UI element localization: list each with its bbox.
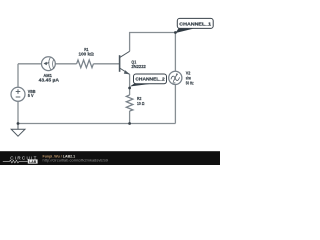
label VBB value 5 V <box>28 93 34 98</box>
wire: R1 to Q1 base <box>93 63 119 65</box>
label Q1 value 2N2222 <box>131 64 146 69</box>
svg-text:50 Hz: 50 Hz <box>186 80 194 85</box>
node: junction dot R2/bottom rail <box>128 122 131 125</box>
resistor R1 <box>77 60 94 68</box>
label R2 value 10 Ohm <box>137 101 145 106</box>
svg-text:http://circuitlab.com/c/fk2mka: http://circuitlab.com/c/fk2mka8svES9 <box>43 159 109 163</box>
wire: R2 bottom to bottom rail <box>129 111 131 124</box>
label AM1 value 43.45 uA <box>39 78 59 83</box>
wire: emitter down to R2 <box>129 74 131 95</box>
node: junction dot ground/bottom rail <box>17 122 20 125</box>
svg-text:LAB: LAB <box>29 160 37 164</box>
label VBB name <box>28 89 36 94</box>
flag CHANNEL_2 <box>130 74 167 87</box>
label AM1 name <box>43 73 52 78</box>
footer bar <box>0 151 220 165</box>
voltage source VBB <box>11 87 25 101</box>
label R1 value 100 kOhm <box>79 52 95 57</box>
wire: V2 bottom to bottom rail <box>174 85 176 124</box>
label V2 name <box>186 71 191 76</box>
flag CHANNEL_1 <box>176 18 214 33</box>
label R2 name <box>137 96 142 101</box>
label V2 value 50 Hz <box>186 80 194 85</box>
wire: collector riser and top rail to V2 <box>130 33 176 52</box>
svg-text:CHANNEL_2: CHANNEL_2 <box>135 77 165 82</box>
wire: VBB bottom to ground node <box>17 101 19 123</box>
wire: bottom rail <box>18 123 175 125</box>
wire: V2 top riser <box>174 33 176 72</box>
ammeter AM1 <box>42 57 56 71</box>
node: junction dot emitter CHANNEL_2 tap <box>128 87 131 90</box>
wire: top-left horizontal corner to AM1 <box>18 63 42 65</box>
node: junction dot top rail CHANNEL_1 tap <box>174 31 177 34</box>
label R1 name <box>84 47 89 52</box>
voltage source V2 (sine) <box>169 71 182 84</box>
svg-text:100 kΩ: 100 kΩ <box>79 52 95 57</box>
svg-text:2N2222: 2N2222 <box>131 64 146 69</box>
label Q1 name <box>131 59 136 64</box>
resistor R2 <box>126 95 133 111</box>
svg-text:10 Ω: 10 Ω <box>137 101 145 106</box>
ground <box>11 124 25 137</box>
wire: left vertical from top-left corner down to VBB <box>17 64 19 88</box>
svg-text:43.45 µA: 43.45 µA <box>39 78 59 83</box>
wire: AM1 to R1 <box>55 63 76 65</box>
svg-text:CHANNEL_1: CHANNEL_1 <box>179 21 212 26</box>
label V2 value sine <box>186 76 192 81</box>
transistor Q1 2N2222 <box>120 51 130 74</box>
svg-text:5 V: 5 V <box>28 93 34 98</box>
